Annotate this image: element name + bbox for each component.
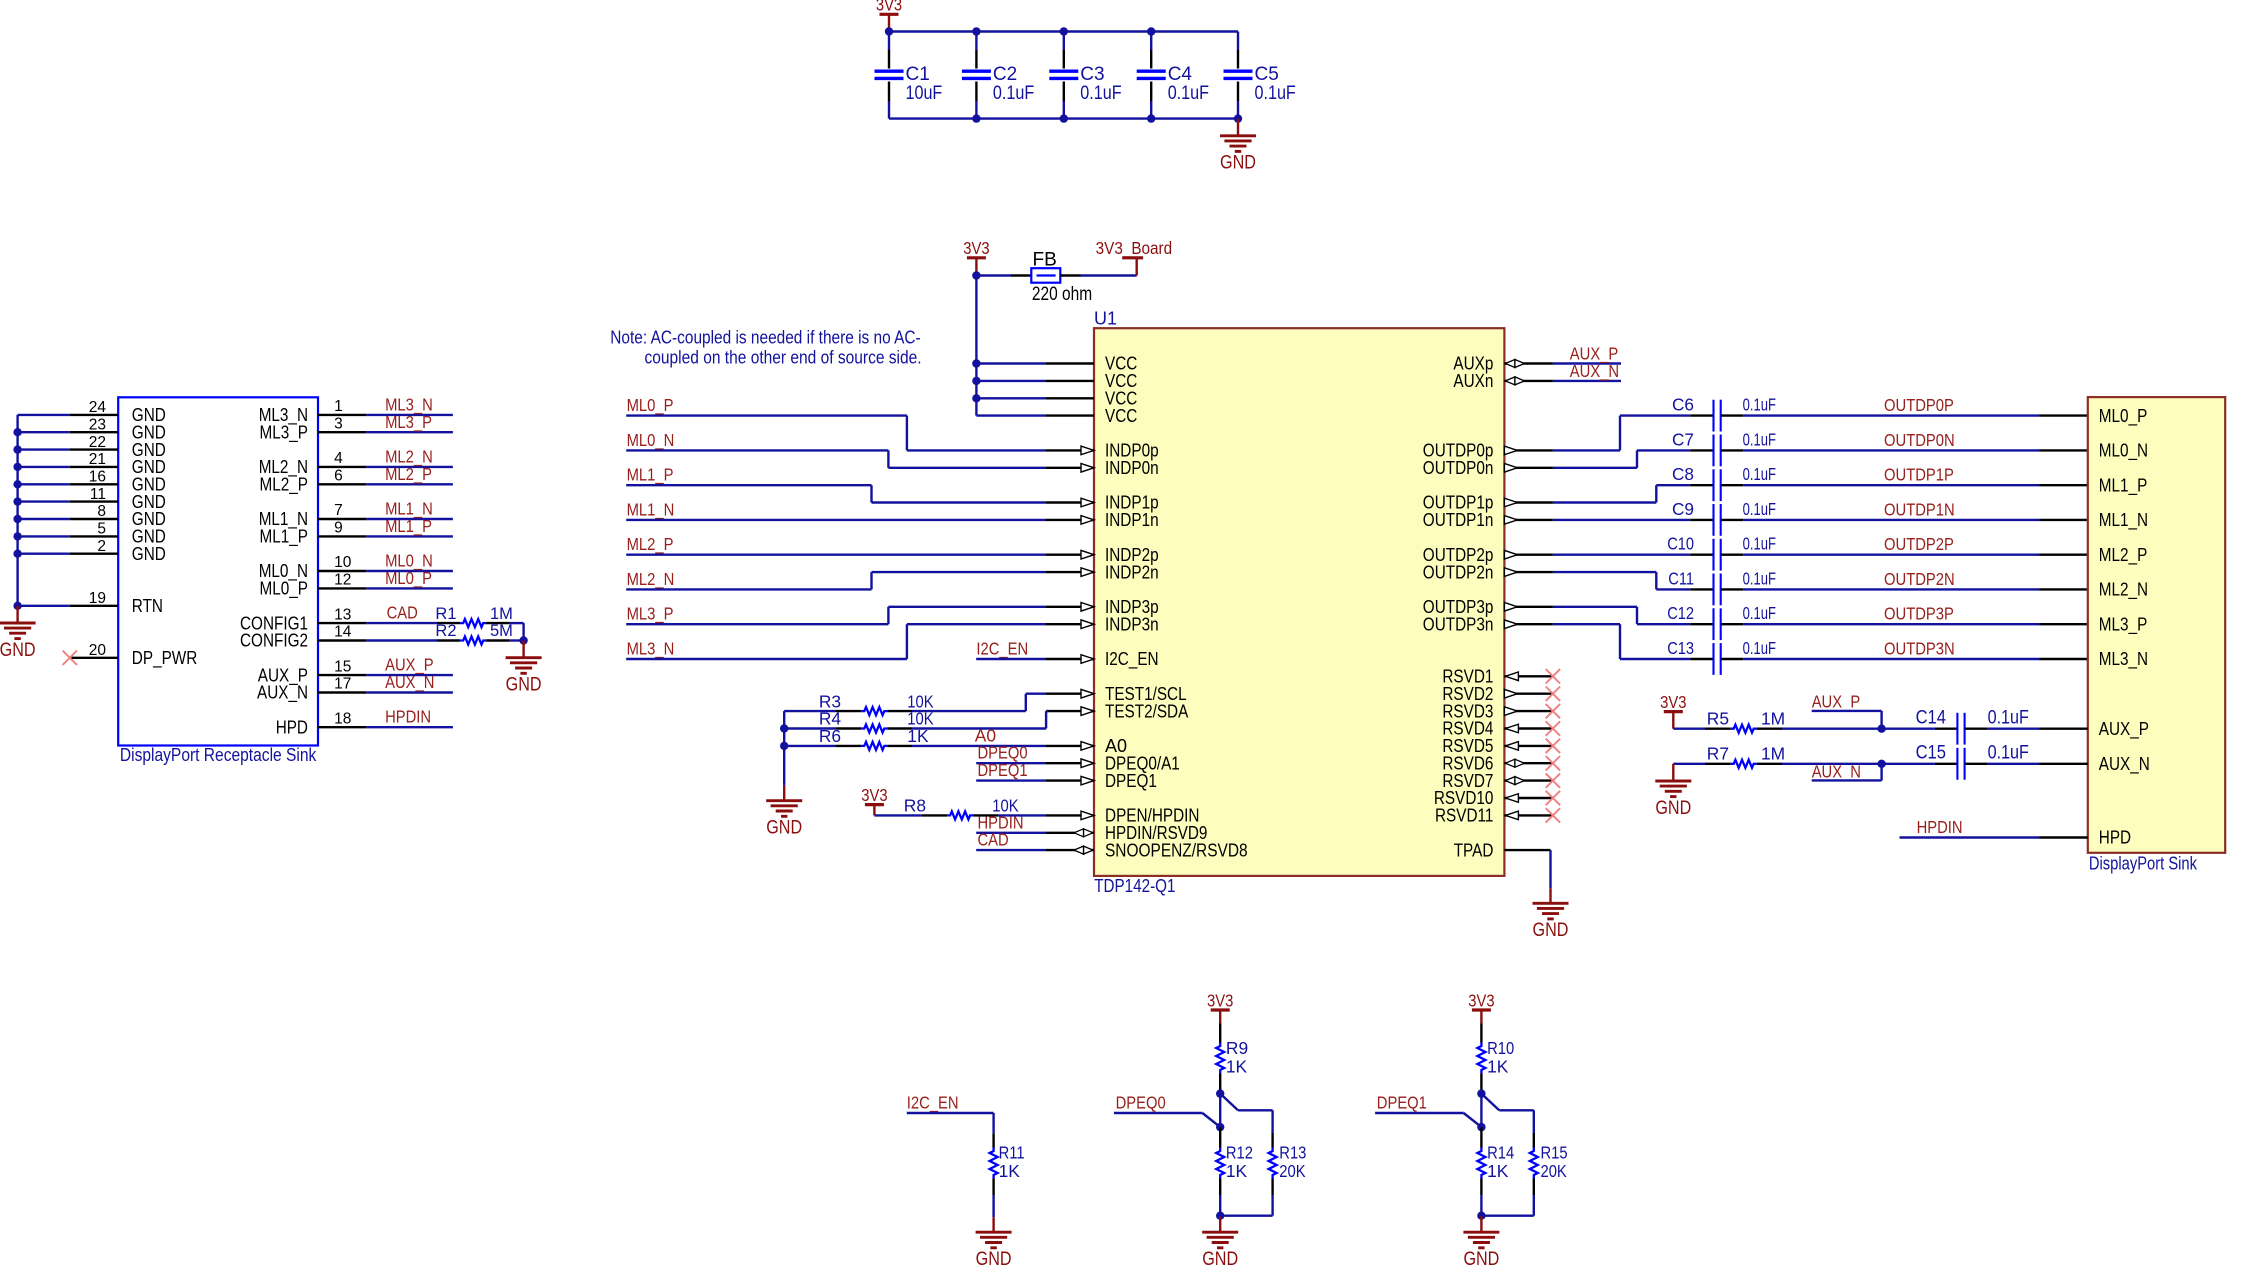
svg-text:R10: R10 [1487, 1038, 1514, 1058]
svg-text:16: 16 [89, 469, 106, 486]
svg-text:INDP0n: INDP0n [1105, 458, 1159, 478]
svg-text:OUTDP0n: OUTDP0n [1423, 458, 1494, 478]
svg-text:R2: R2 [435, 622, 456, 640]
svg-text:10uF: 10uF [906, 83, 943, 104]
svg-text:AUX_N: AUX_N [2099, 754, 2150, 775]
svg-text:GND: GND [1533, 920, 1569, 941]
svg-text:3V3: 3V3 [876, 0, 902, 15]
svg-text:AUX_N: AUX_N [385, 672, 434, 692]
svg-text:0.1uF: 0.1uF [1743, 499, 1776, 519]
svg-text:ML0_N: ML0_N [2099, 441, 2148, 462]
svg-text:20K: 20K [1541, 1161, 1568, 1181]
svg-text:0.1uF: 0.1uF [1988, 707, 2029, 729]
svg-text:INDP2n: INDP2n [1105, 562, 1159, 582]
svg-text:R12: R12 [1226, 1143, 1253, 1163]
svg-text:2: 2 [97, 538, 106, 555]
svg-text:0.1uF: 0.1uF [1168, 83, 1209, 104]
svg-text:HPD: HPD [276, 717, 308, 737]
svg-text:HPDIN: HPDIN [385, 707, 431, 727]
svg-text:13: 13 [334, 606, 351, 623]
svg-text:Note: AC-coupled is needed if: Note: AC-coupled is needed if there is n… [610, 327, 920, 348]
svg-text:7: 7 [334, 502, 343, 519]
svg-text:DP_PWR: DP_PWR [132, 648, 198, 669]
svg-text:ML0_P: ML0_P [260, 579, 309, 600]
svg-text:AUX_P: AUX_P [1812, 691, 1861, 711]
svg-text:220 ohm: 220 ohm [1032, 284, 1092, 305]
svg-text:DisplayPort Sink: DisplayPort Sink [2089, 853, 2198, 874]
svg-text:ML3_N: ML3_N [2099, 649, 2148, 670]
svg-text:8: 8 [97, 503, 106, 520]
svg-text:ML0_N: ML0_N [627, 430, 675, 450]
svg-text:ML2_P: ML2_P [260, 475, 309, 496]
svg-text:R5: R5 [1707, 709, 1729, 729]
svg-text:OUTDP3n: OUTDP3n [1423, 614, 1494, 634]
svg-text:ML0_P: ML0_P [627, 395, 674, 415]
svg-text:TDP142-Q1: TDP142-Q1 [1094, 875, 1175, 896]
svg-text:C14: C14 [1916, 707, 1947, 729]
svg-text:ML2_P: ML2_P [627, 534, 674, 554]
svg-text:ML1_N: ML1_N [627, 499, 675, 519]
svg-text:C5: C5 [1255, 64, 1279, 85]
svg-text:SNOOPENZ/RSVD8: SNOOPENZ/RSVD8 [1105, 840, 1248, 860]
svg-text:ML3_P: ML3_P [385, 412, 432, 432]
svg-text:1M: 1M [1761, 709, 1785, 729]
svg-text:C9: C9 [1672, 499, 1694, 519]
svg-text:ML3_P: ML3_P [627, 604, 674, 624]
svg-text:3V3: 3V3 [861, 785, 887, 805]
svg-text:0.1uF: 0.1uF [1743, 638, 1776, 658]
svg-text:OUTDP1N: OUTDP1N [1884, 499, 1955, 519]
svg-text:20K: 20K [1279, 1161, 1306, 1181]
svg-text:GND: GND [506, 675, 542, 696]
svg-text:CAD: CAD [387, 603, 418, 623]
svg-text:3V3: 3V3 [1660, 692, 1686, 712]
svg-text:3V3: 3V3 [963, 238, 989, 258]
svg-text:ML3_P: ML3_P [260, 422, 309, 443]
svg-text:ML1_N: ML1_N [2099, 510, 2148, 531]
svg-text:ML0_P: ML0_P [2099, 406, 2148, 427]
svg-text:TPAD: TPAD [1454, 840, 1494, 860]
svg-text:DPEQ1: DPEQ1 [1105, 771, 1157, 791]
svg-text:9: 9 [334, 520, 343, 537]
svg-text:C1: C1 [906, 64, 930, 85]
svg-text:R8: R8 [904, 796, 926, 816]
svg-text:I2C_EN: I2C_EN [1105, 649, 1159, 670]
svg-text:1: 1 [334, 398, 343, 415]
svg-text:OUTDP3P: OUTDP3P [1884, 604, 1954, 624]
svg-text:FB: FB [1033, 249, 1057, 270]
svg-text:C11: C11 [1668, 568, 1694, 588]
svg-text:C10: C10 [1667, 534, 1694, 554]
svg-text:DPEQ1: DPEQ1 [1377, 1093, 1427, 1113]
svg-text:DPEQ1: DPEQ1 [978, 760, 1028, 780]
svg-text:GND: GND [766, 818, 802, 839]
svg-text:ML1_P: ML1_P [627, 465, 674, 485]
svg-text:ML1_P: ML1_P [385, 516, 432, 536]
svg-text:GND: GND [976, 1249, 1012, 1265]
svg-text:1K: 1K [1226, 1056, 1248, 1076]
svg-text:C8: C8 [1672, 464, 1694, 484]
svg-text:ML2_P: ML2_P [385, 464, 432, 484]
svg-text:OUTDP2n: OUTDP2n [1423, 562, 1494, 582]
svg-text:C3: C3 [1080, 64, 1104, 85]
svg-text:14: 14 [334, 624, 352, 641]
svg-text:RSVD11: RSVD11 [1435, 806, 1493, 826]
svg-text:GND: GND [1655, 798, 1691, 819]
svg-text:0.1uF: 0.1uF [1988, 742, 2029, 764]
svg-text:C4: C4 [1168, 64, 1193, 85]
svg-text:OUTDP3N: OUTDP3N [1884, 639, 1955, 659]
svg-text:GND: GND [1463, 1249, 1499, 1265]
svg-text:R15: R15 [1541, 1143, 1568, 1163]
svg-text:OUTDP0N: OUTDP0N [1884, 430, 1955, 450]
svg-text:AUXn: AUXn [1453, 371, 1493, 391]
svg-text:10: 10 [334, 554, 352, 571]
svg-text:RTN: RTN [132, 596, 163, 616]
svg-text:I2C_EN: I2C_EN [976, 639, 1028, 659]
svg-text:0.1uF: 0.1uF [1743, 603, 1776, 623]
svg-text:1M: 1M [1761, 744, 1785, 764]
svg-text:GND: GND [132, 544, 166, 564]
svg-text:R13: R13 [1279, 1143, 1306, 1163]
svg-text:R9: R9 [1226, 1038, 1248, 1058]
svg-text:R14: R14 [1487, 1143, 1514, 1163]
svg-text:17: 17 [334, 676, 351, 693]
svg-text:22: 22 [89, 434, 106, 451]
svg-text:C2: C2 [993, 64, 1017, 85]
svg-text:5M: 5M [490, 622, 513, 640]
svg-text:24: 24 [89, 399, 107, 416]
svg-text:ML0_P: ML0_P [385, 568, 432, 588]
svg-text:23: 23 [89, 416, 106, 433]
svg-text:AUX_N: AUX_N [257, 683, 308, 704]
svg-text:5: 5 [97, 521, 106, 538]
svg-text:CAD: CAD [978, 830, 1009, 850]
svg-text:1M: 1M [490, 605, 513, 623]
svg-text:GND: GND [0, 640, 36, 661]
svg-text:ML2_P: ML2_P [2099, 545, 2148, 566]
svg-text:DisplayPort Receptacle Sink: DisplayPort Receptacle Sink [120, 744, 317, 765]
svg-text:R6: R6 [819, 726, 841, 746]
svg-text:0.1uF: 0.1uF [1743, 568, 1776, 588]
svg-text:0.1uF: 0.1uF [1743, 429, 1776, 449]
svg-text:AUX_P: AUX_P [2099, 719, 2149, 740]
svg-text:C7: C7 [1672, 429, 1694, 449]
svg-text:0.1uF: 0.1uF [1743, 395, 1776, 415]
svg-text:R7: R7 [1707, 744, 1729, 764]
svg-text:19: 19 [89, 590, 106, 607]
svg-text:AUX_N: AUX_N [1570, 361, 1619, 381]
svg-text:0.1uF: 0.1uF [1255, 83, 1296, 104]
svg-text:0.1uF: 0.1uF [1080, 83, 1121, 104]
svg-text:INDP1n: INDP1n [1105, 510, 1159, 530]
svg-text:3: 3 [334, 415, 343, 432]
svg-text:6: 6 [334, 468, 343, 485]
svg-text:AUX_N: AUX_N [1812, 761, 1861, 781]
svg-text:R11: R11 [999, 1143, 1025, 1163]
svg-text:OUTDP2P: OUTDP2P [1884, 534, 1954, 554]
svg-text:U1: U1 [1094, 309, 1117, 329]
svg-text:HPDIN: HPDIN [1917, 817, 1963, 837]
svg-text:0.1uF: 0.1uF [993, 83, 1034, 104]
svg-text:C6: C6 [1672, 395, 1694, 415]
svg-text:CONFIG2: CONFIG2 [240, 631, 308, 651]
svg-text:VCC: VCC [1105, 406, 1137, 426]
svg-text:INDP3n: INDP3n [1105, 614, 1159, 634]
svg-text:1K: 1K [1487, 1161, 1509, 1181]
svg-text:21: 21 [89, 451, 106, 468]
svg-text:TEST2/SDA: TEST2/SDA [1105, 701, 1188, 721]
svg-text:1K: 1K [1487, 1056, 1509, 1076]
svg-text:3V3: 3V3 [1468, 990, 1494, 1010]
svg-text:OUTDP1n: OUTDP1n [1423, 510, 1494, 530]
svg-text:C12: C12 [1667, 603, 1694, 623]
svg-text:ML1_P: ML1_P [260, 527, 309, 548]
svg-text:ML2_N: ML2_N [2099, 580, 2148, 601]
svg-text:C13: C13 [1667, 638, 1694, 658]
svg-text:ML3_P: ML3_P [2099, 614, 2148, 635]
svg-text:18: 18 [334, 710, 351, 727]
svg-text:12: 12 [334, 572, 351, 589]
svg-text:0.1uF: 0.1uF [1743, 534, 1776, 554]
svg-text:1K: 1K [999, 1161, 1021, 1181]
svg-text:0.1uF: 0.1uF [1743, 464, 1776, 484]
svg-text:R1: R1 [435, 605, 456, 623]
svg-text:ML2_N: ML2_N [627, 569, 675, 589]
svg-text:GND: GND [1202, 1249, 1238, 1265]
svg-text:11: 11 [90, 486, 106, 503]
svg-text:HPD: HPD [2099, 828, 2131, 848]
svg-text:GND: GND [1220, 153, 1256, 174]
svg-text:I2C_EN: I2C_EN [907, 1093, 959, 1113]
svg-text:coupled on the other end of so: coupled on the other end of source side. [645, 346, 922, 367]
svg-text:OUTDP0P: OUTDP0P [1884, 395, 1954, 415]
svg-text:20: 20 [89, 642, 107, 659]
svg-text:ML3_N: ML3_N [627, 639, 675, 659]
svg-text:4: 4 [334, 450, 343, 467]
svg-text:OUTDP1P: OUTDP1P [1884, 465, 1954, 485]
svg-text:1K: 1K [1226, 1161, 1248, 1181]
svg-text:3V3: 3V3 [1207, 990, 1233, 1010]
svg-text:3V3_Board: 3V3_Board [1096, 238, 1173, 258]
svg-text:15: 15 [334, 658, 351, 675]
svg-text:OUTDP2N: OUTDP2N [1884, 569, 1955, 589]
svg-text:DPEQ0: DPEQ0 [1116, 1093, 1166, 1113]
svg-text:ML1_P: ML1_P [2099, 475, 2148, 496]
svg-text:C15: C15 [1916, 742, 1947, 764]
